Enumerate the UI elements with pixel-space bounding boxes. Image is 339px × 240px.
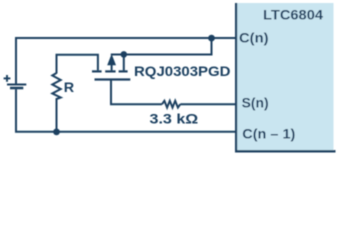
wire source node: MOSFET left stub to resistor R top (57, 55, 98, 74)
svg-text:C(n – 1): C(n – 1) (242, 125, 295, 141)
svg-text:RQJ0303PGD: RQJ0303PGD (134, 63, 231, 79)
svg-text:LTC6804: LTC6804 (263, 7, 323, 23)
IC U1 LTC6804 body (235, 3, 336, 152)
resistor 3.3 kOhm (162, 101, 180, 108)
wire gate resistor to pin S(n) (180, 103, 236, 105)
label 3.3 kOhm (150, 110, 199, 126)
wire bottom rail from battery - to pin C(n-1) (16, 89, 236, 132)
svg-text:S(n): S(n) (242, 94, 269, 110)
junction dot at resistor R / bottom rail (53, 129, 60, 136)
junction dot at MOSFET drain/body tie (121, 51, 128, 58)
junction dot at top rail / riser (208, 35, 215, 42)
svg-text:C(n): C(n) (239, 30, 269, 46)
svg-text:3.3 kΩ: 3.3 kΩ (150, 110, 199, 126)
transistor Q1 RQJ0303PGD (92, 54, 130, 80)
pin label C(n - 1) (242, 125, 295, 141)
pin label C(n) (239, 30, 269, 46)
svg-text:R: R (64, 79, 74, 95)
pin label S(n) (242, 94, 269, 110)
resistor R (52, 73, 60, 132)
battery cell (4, 75, 27, 88)
label R (64, 79, 74, 95)
wire top rail from battery + to pin C(n) (16, 38, 236, 84)
label RQJ0303PGD (134, 63, 231, 79)
wire drain node: MOSFET to top rail riser (111, 38, 212, 55)
wire gate lead down from MOSFET gate (111, 80, 162, 104)
label LTC6804 (263, 7, 323, 23)
